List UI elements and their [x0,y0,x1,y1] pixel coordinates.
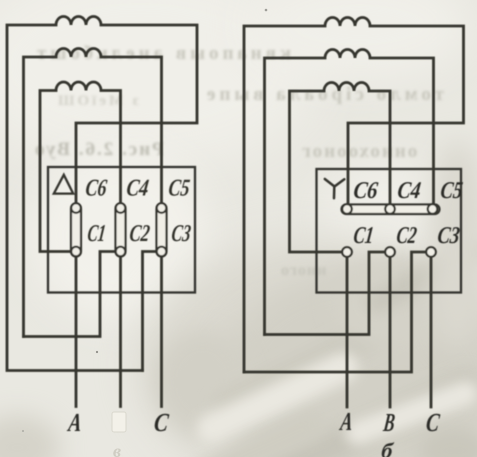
svg-text:C2: C2 [395,223,418,249]
svg-text:б: б [380,438,395,457]
svg-text:C5: C5 [439,178,464,204]
svg-text:C: C [425,408,442,437]
svg-text:C1: C1 [86,221,107,247]
svg-text:C2: C2 [128,221,151,247]
svg-text:C6: C6 [84,176,109,202]
svg-text:C3: C3 [436,223,461,249]
svg-text:C6: C6 [352,178,380,204]
svg-text:C: C [153,408,171,437]
svg-text:в: в [113,441,121,457]
svg-text:B: B [381,408,396,437]
svg-text:A: A [66,408,84,437]
svg-text:C3: C3 [170,221,192,247]
svg-text:A: A [338,407,355,436]
svg-text:C1: C1 [352,223,375,249]
svg-text:C4: C4 [396,178,422,204]
svg-text:C5: C5 [167,176,191,202]
svg-text:C4: C4 [125,176,150,202]
